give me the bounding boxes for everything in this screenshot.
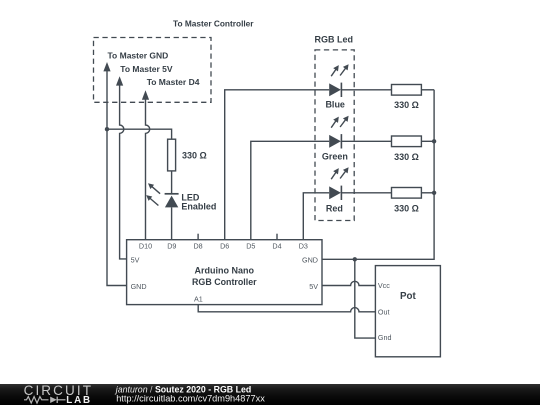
svg-text:Vcc: Vcc [378,281,390,290]
wire: Red resistor to right rail [421,192,434,194]
svg-text:Green: Green [322,152,348,162]
svg-text:GND: GND [131,282,147,291]
resistor: 330 ohm (Red) [392,188,422,199]
svg-text:A1: A1 [194,294,203,303]
LED D-enabled: emission arrows [146,183,160,205]
LED Blue: cathode bar [340,83,342,97]
port arrow: To Master GND [103,62,110,71]
logo resistor zigzag [24,397,49,403]
svg-text:D8: D8 [193,242,202,251]
node: GND junction at Pot [353,257,357,261]
wire: LED Enabled anode to D9 pin [171,207,173,239]
svg-text:Blue: Blue [325,100,345,110]
wire: Red LED cathode to resistor [341,192,391,194]
svg-text:http://circuitlab.com/cv7dm9h4: http://circuitlab.com/cv7dm9h4877xx [116,394,265,404]
svg-text:5V: 5V [309,282,318,291]
wire: GND junction to resistor R-enabled top [107,129,172,139]
LED Green: emission arrows [331,116,348,128]
svg-text:D6: D6 [220,242,229,251]
svg-text:Gnd: Gnd [378,333,392,342]
svg-text:Enabled: Enabled [181,202,216,212]
svg-text:330 Ω: 330 Ω [394,203,419,213]
node: Red rail junction [432,191,436,195]
op-amp/box: Arduino Nano RGB Controller [127,240,322,305]
LED D-enabled: cathode bar [165,193,179,195]
svg-text:Red: Red [326,203,343,213]
wire: D5 to Green LED anode [251,141,329,239]
dashed box: RGB Led [315,50,354,221]
pin stub: D8 (unconnected) [197,234,199,240]
node: GND junction dot [105,127,109,131]
LED Red: emission arrows [331,167,348,179]
wire: D4 rail (To Master D4 down to Arduino D10 pin, hop) [146,99,150,240]
wire: D6 to Blue LED anode [225,90,330,240]
svg-text:330 Ω: 330 Ω [394,152,419,162]
LED Red: triangle [329,186,341,199]
svg-text:Arduino Nano: Arduino Nano [195,266,255,276]
LED D-enabled: triangle [165,196,178,208]
pin stub: D4 (unconnected) [276,234,278,240]
svg-text:D9: D9 [167,242,176,251]
svg-text:LAB: LAB [66,395,92,405]
svg-text:Pot: Pot [400,291,417,302]
wire: Blue resistor to right rail [421,89,434,91]
svg-text:330 Ω: 330 Ω [394,100,419,110]
svg-text:RGB Controller: RGB Controller [192,277,257,287]
wire: Arduino A1 to Pot Out (hop) [198,305,375,312]
box: Pot [375,266,440,357]
port arrow: To Master D4 [142,90,149,99]
svg-text:D5: D5 [246,242,255,251]
LED Blue: emission arrows [331,64,348,76]
logo diode [50,397,57,403]
wire: D3 to Red LED anode [303,193,329,240]
port arrow: To Master 5V [116,76,123,85]
LED Red: cathode bar [340,186,342,200]
resistor: 330 ohm (Blue) [392,85,422,96]
svg-text:D3: D3 [299,242,308,251]
svg-text:D10: D10 [139,242,152,251]
LED Blue: triangle [329,83,341,96]
node: Green rail junction [432,139,436,143]
svg-text:To Master D4: To Master D4 [147,77,200,87]
svg-text:To Master 5V: To Master 5V [120,64,173,74]
wire: GND rail (To Master GND down to Arduino GND left pin) [107,71,127,286]
footer bar [0,384,540,405]
wire: Green resistor to right rail [421,140,434,142]
wire: Arduino 5V right pin to Pot Vcc (hop) [322,281,375,285]
LED Green: triangle [329,135,341,148]
wire: right rail down to GND row [355,90,434,259]
svg-text:Out: Out [378,307,390,316]
resistor: 330 ohm (Green) [392,136,422,147]
wire: Blue LED cathode to resistor [341,89,391,91]
wire: junction down to Pot Gnd [355,259,376,338]
dashed box: To Master Controller [94,38,212,103]
svg-text:To Master GND: To Master GND [108,51,169,61]
wire: Arduino GND right pin to junction [322,258,355,260]
wire: resistor to LED Enabled cathode [171,171,173,194]
svg-text:D4: D4 [272,242,281,251]
wire: 5V rail (To Master 5V down to Arduino 5V left pin, hops over GND-resistor wire) [120,85,127,259]
resistor: 330 ohm (LED Enabled) [168,139,176,171]
svg-text:GND: GND [302,255,318,264]
svg-text:5V: 5V [131,255,140,264]
svg-text:RGB Led: RGB Led [315,35,354,45]
svg-text:To Master Controller: To Master Controller [173,19,254,29]
wire: Green LED cathode to resistor [341,140,391,142]
LED Green: cathode bar [340,134,342,148]
svg-text:330 Ω: 330 Ω [182,151,207,161]
